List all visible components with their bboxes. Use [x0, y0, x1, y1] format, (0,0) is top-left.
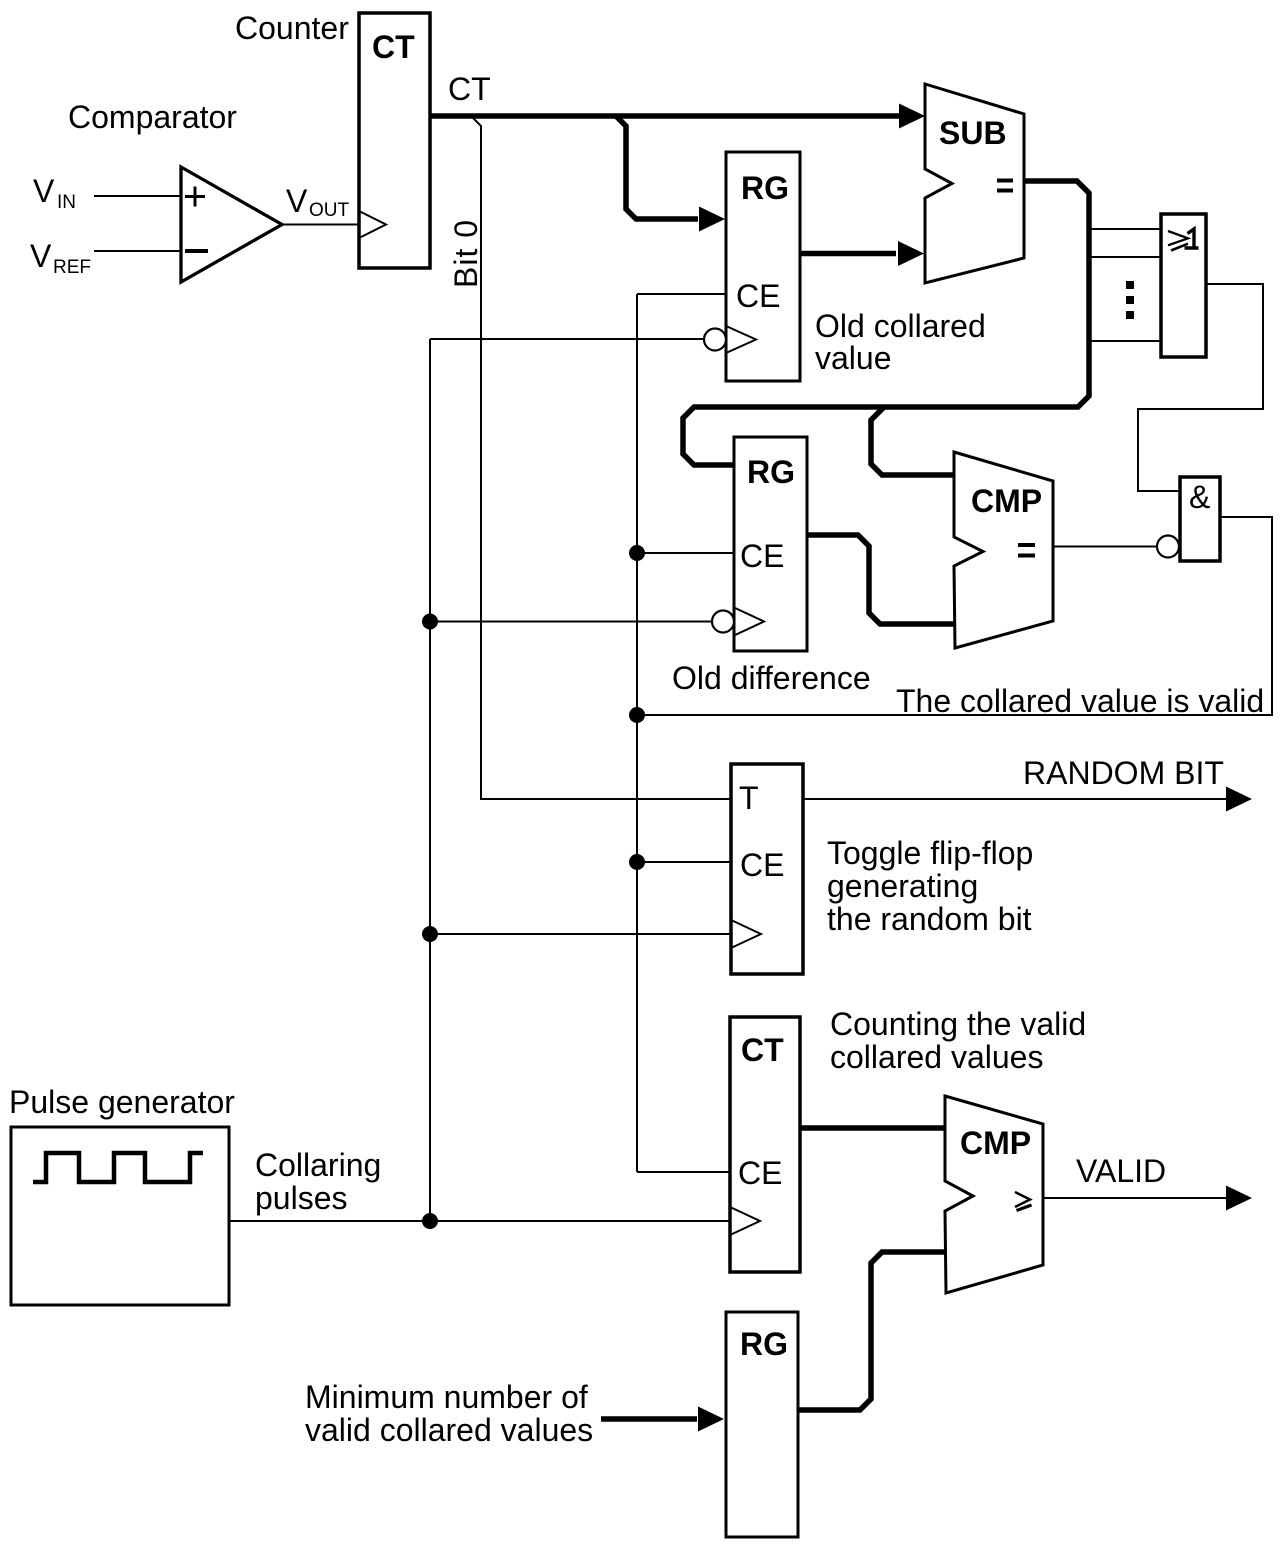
- wire minimum value input: [601, 1416, 697, 1422]
- svg-text:collared values: collared values: [830, 1039, 1043, 1075]
- junction: [629, 545, 645, 561]
- wire Bit 0: [473, 118, 731, 799]
- wire CT bus: [430, 113, 917, 119]
- svg-text:RG: RG: [741, 170, 789, 206]
- register RG2: [712, 437, 807, 651]
- node VIN label: [33, 173, 76, 213]
- svg-text:CMP: CMP: [960, 1125, 1031, 1161]
- junction: [422, 614, 438, 630]
- label Toggle flip-flop: [827, 835, 1033, 937]
- svg-text:SUB: SUB: [939, 115, 1007, 151]
- wire VREF: [94, 250, 181, 252]
- svg-text:V: V: [286, 183, 308, 219]
- junction: [629, 854, 645, 870]
- svg-text:Counting the valid: Counting the valid: [830, 1006, 1086, 1042]
- comparator CMP2: [945, 1096, 1043, 1293]
- svg-text:generating: generating: [827, 868, 978, 904]
- or-gate G1: [1161, 214, 1206, 357]
- wire CT bus branch to RG1: [616, 116, 698, 219]
- counter CT2: [730, 1017, 800, 1272]
- junction: [422, 1213, 438, 1229]
- comparator CMP1: [954, 452, 1053, 648]
- junction: [422, 926, 438, 942]
- wire OR output to AND: [1138, 284, 1263, 491]
- subtractor SUB: [925, 84, 1024, 283]
- wire RG1 out to SUB: [800, 251, 896, 257]
- svg-text:Old collared: Old collared: [815, 308, 986, 344]
- svg-text:CE: CE: [736, 278, 780, 314]
- svg-text:Comparator: Comparator: [68, 99, 237, 135]
- svg-text:Minimum number of: Minimum number of: [305, 1379, 588, 1415]
- wire SUB out (new difference bus): [683, 181, 1089, 465]
- svg-text:CT: CT: [372, 29, 415, 65]
- node ellipsis dots: [1126, 281, 1134, 319]
- svg-text:RG: RG: [747, 454, 795, 490]
- wire VIN: [94, 195, 181, 197]
- svg-text:CE: CE: [740, 847, 784, 883]
- label Counting the valid collared values: [830, 1006, 1086, 1075]
- svg-text:VALID: VALID: [1076, 1153, 1166, 1189]
- pulse generator PG1: [11, 1127, 229, 1305]
- junction: [629, 707, 645, 723]
- svg-text:CE: CE: [740, 538, 784, 574]
- node VOUT label: [286, 183, 350, 221]
- wire CT2 out to CMP2: [800, 1125, 945, 1131]
- wire OR inputs: [1089, 229, 1161, 341]
- wire CMP1 output: [1053, 546, 1157, 548]
- wire VALID: [1043, 1197, 1226, 1199]
- svg-text:CE: CE: [738, 1155, 782, 1191]
- wire clock chain: [229, 339, 731, 1221]
- wire RG3 out to CMP2: [798, 1252, 945, 1410]
- flip-flop T1: [731, 764, 803, 974]
- svg-text:RG: RG: [740, 1326, 788, 1362]
- svg-text:&: &: [1189, 479, 1210, 515]
- and-gate G2: [1180, 477, 1220, 561]
- wire RG2 out to CMP1: [807, 535, 954, 624]
- svg-text:value: value: [815, 340, 892, 376]
- wire branch to CMP1 upper input: [871, 407, 954, 475]
- register RG3: [726, 1312, 798, 1537]
- svg-text:T: T: [739, 780, 759, 816]
- svg-text:Toggle flip-flop: Toggle flip-flop: [827, 835, 1033, 871]
- label Minimum number of valid collared values: [305, 1379, 593, 1448]
- inverter bubble: [1157, 536, 1179, 558]
- node VREF label: [30, 238, 91, 278]
- wire VOUT: [282, 224, 359, 226]
- svg-text:Pulse generator: Pulse generator: [9, 1084, 235, 1120]
- wire RANDOM BIT: [803, 798, 1226, 800]
- svg-text:CT: CT: [448, 71, 491, 107]
- label Old collared value: [815, 308, 986, 376]
- svg-text:IN: IN: [57, 192, 76, 213]
- svg-text:Counter: Counter: [235, 10, 349, 46]
- svg-text:Bit 0: Bit 0: [448, 219, 484, 288]
- register RG1: [704, 152, 800, 381]
- wire CE chain: [637, 294, 734, 1172]
- svg-text:CMP: CMP: [971, 483, 1042, 519]
- comparator U1: [181, 167, 282, 282]
- svg-text:Collaring: Collaring: [255, 1147, 381, 1183]
- counter CT1: [359, 13, 430, 268]
- svg-text:V: V: [30, 238, 52, 274]
- label Collaring pulses: [255, 1147, 381, 1216]
- svg-text:OUT: OUT: [309, 200, 350, 221]
- svg-text:Old difference: Old difference: [672, 660, 871, 696]
- svg-text:The collared value is valid: The collared value is valid: [896, 683, 1264, 719]
- svg-text:the random bit: the random bit: [827, 901, 1032, 937]
- svg-text:CT: CT: [741, 1032, 784, 1068]
- svg-text:RANDOM BIT: RANDOM BIT: [1023, 755, 1224, 791]
- wire AND output / valid line: [637, 517, 1272, 715]
- svg-text:REF: REF: [53, 257, 91, 278]
- svg-text:V: V: [33, 173, 55, 209]
- svg-text:valid collared values: valid collared values: [305, 1412, 593, 1448]
- svg-text:pulses: pulses: [255, 1180, 348, 1216]
